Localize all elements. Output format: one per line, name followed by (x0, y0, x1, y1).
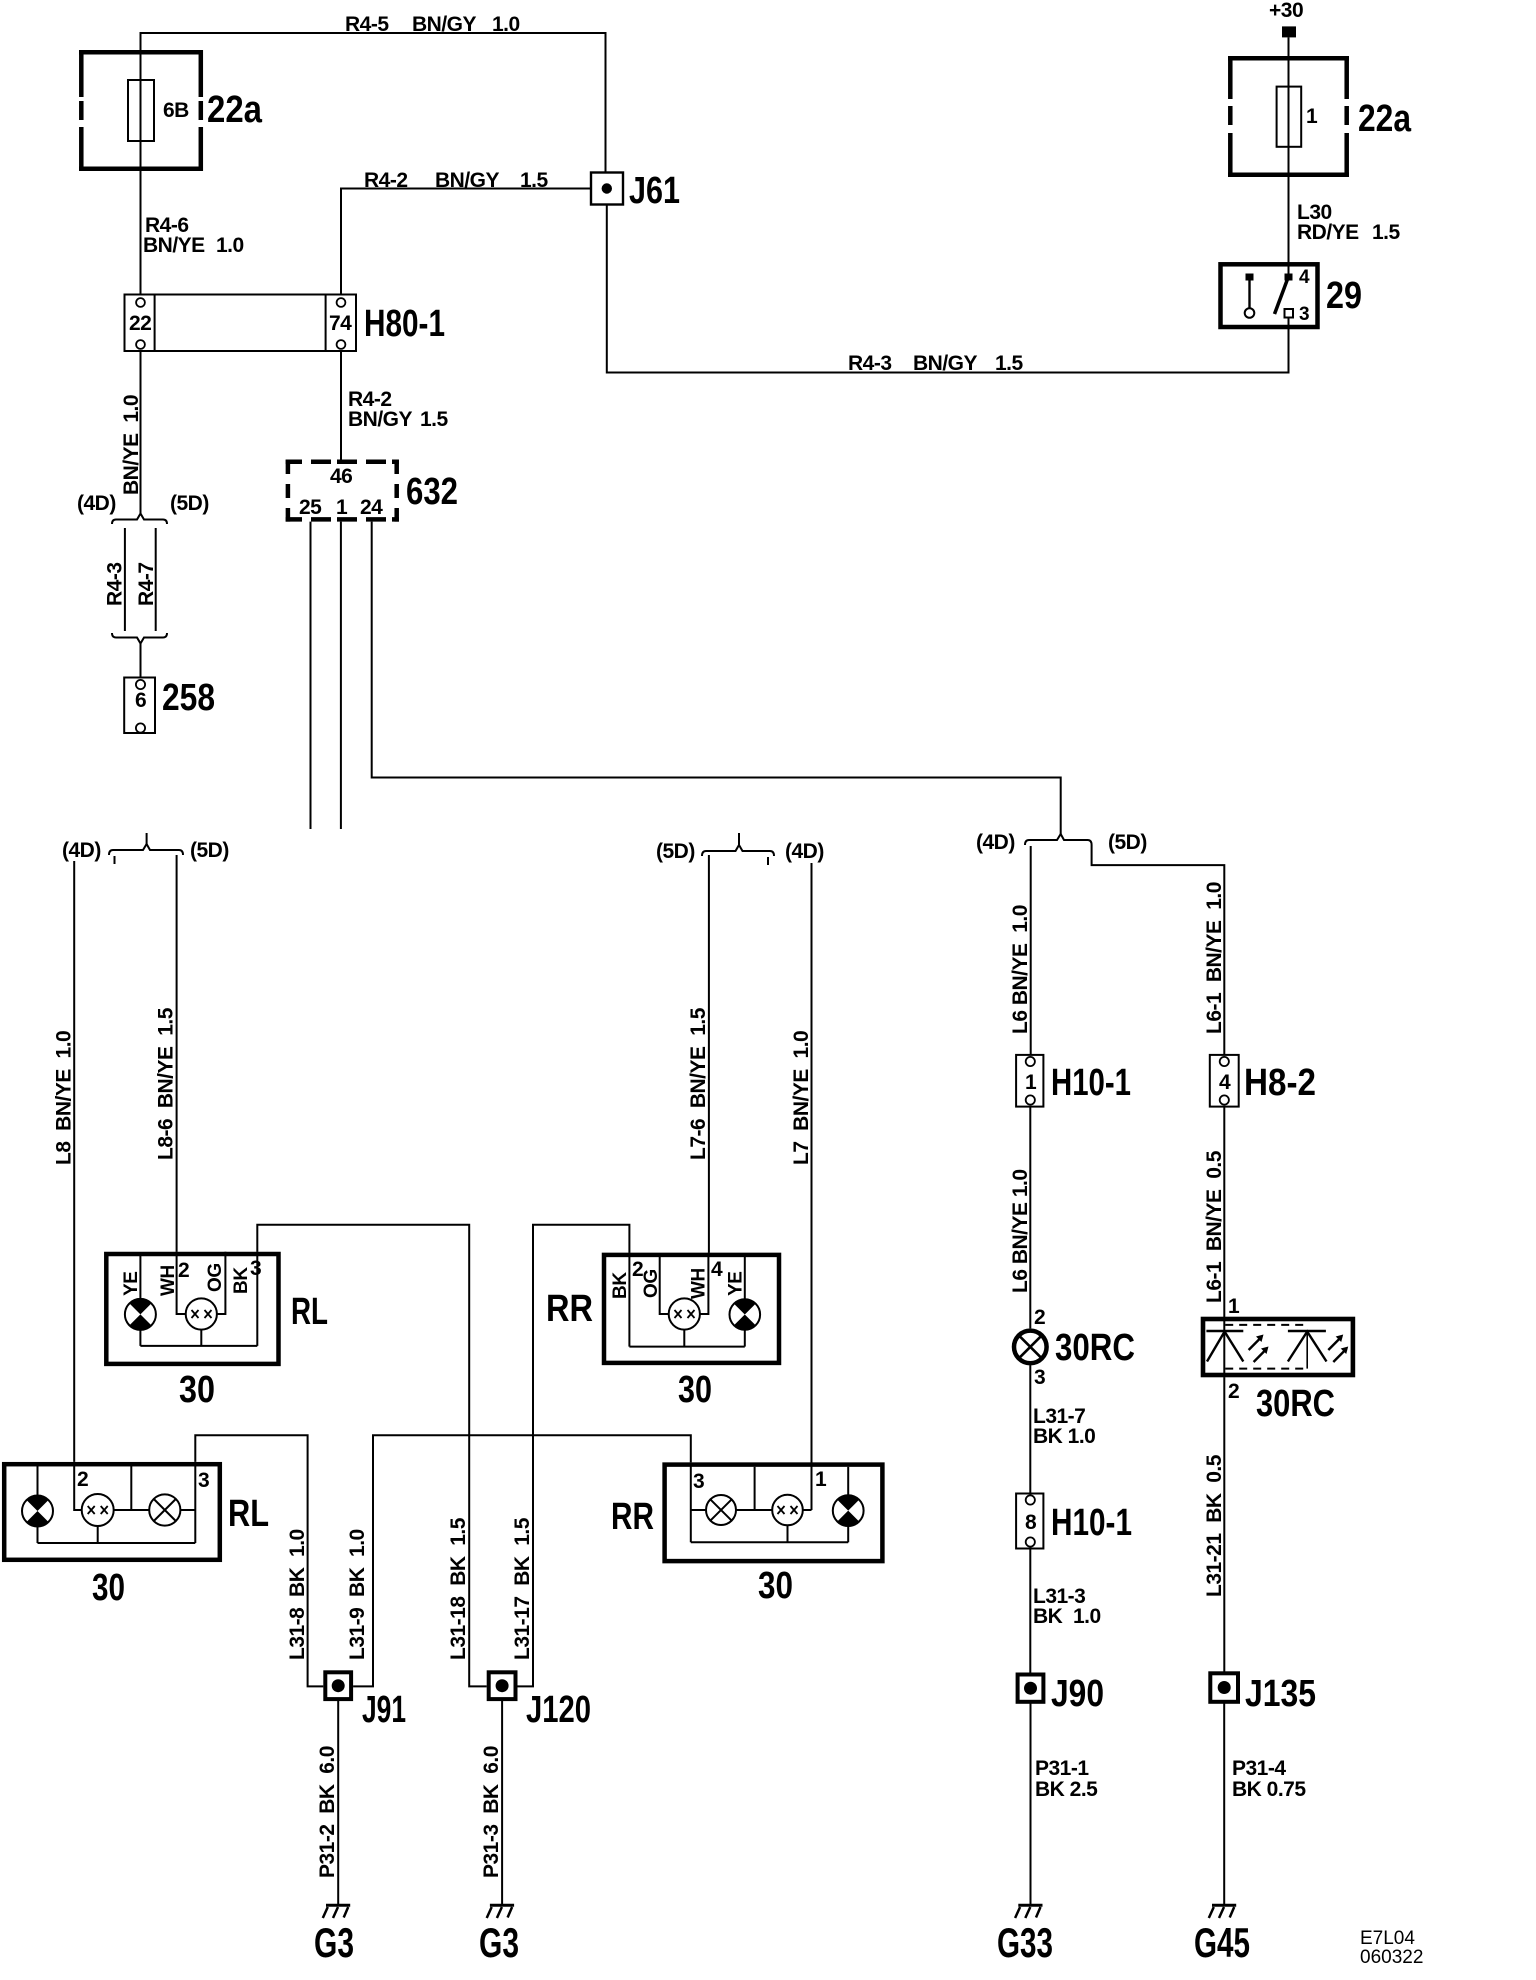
svg-text:1.5: 1.5 (520, 169, 549, 192)
svg-text:25: 25 (299, 496, 322, 519)
svg-text:30RC: 30RC (1055, 1327, 1135, 1369)
svg-text:30: 30 (758, 1565, 793, 1607)
dual filament bulb (upper RL) (186, 1298, 217, 1329)
dual filament bulb (lower RL) (82, 1494, 114, 1526)
inner lead OG (upper RR) (660, 1256, 669, 1314)
svg-text:YE: YE (726, 1271, 747, 1296)
svg-text:G3: G3 (479, 1919, 519, 1966)
svg-text:74: 74 (329, 312, 352, 335)
connector H80-1 (125, 295, 357, 352)
svg-text:BN/GY: BN/GY (412, 13, 477, 36)
svg-text:(5D): (5D) (1108, 831, 1147, 854)
svg-text:1: 1 (1025, 1071, 1037, 1094)
svg-text:BK 2.5: BK 2.5 (1035, 1778, 1098, 1801)
wire P31-1 BK 2.5 (J90 to G33) (1030, 1702, 1032, 1905)
svg-text:J61: J61 (629, 170, 680, 212)
bottom bus (lower RL) (38, 1542, 196, 1544)
indicator bulb (quadrant) upper RR (730, 1299, 761, 1330)
svg-text:L7-6 BN/YE 1.5: L7-6 BN/YE 1.5 (687, 1007, 710, 1160)
svg-text:G33: G33 (997, 1919, 1053, 1966)
wire to connector 258 (140, 644, 142, 678)
svg-text:46: 46 (330, 465, 352, 488)
svg-text:H80-1: H80-1 (364, 303, 445, 345)
svg-text:1: 1 (815, 1468, 827, 1491)
variant merge bracket (112, 633, 167, 644)
svg-text:R4-3: R4-3 (848, 352, 892, 375)
svg-text:24: 24 (360, 496, 383, 519)
wire YE to indicator (upper RR) (744, 1257, 746, 1299)
indicator bulb (quadrant) lower RR (847, 1467, 849, 1495)
ground G3 (right) (490, 1904, 514, 1907)
fuse box 22a (right) (1228, 56, 1349, 177)
wire R4-3 BN/GY 1.5 (J61 down, across to switch 29 pin 3) (607, 205, 1289, 373)
LED 1 (1206, 1330, 1243, 1332)
pin 3 lead (lower RR) (690, 1462, 692, 1542)
svg-text:+30: +30 (1269, 0, 1303, 22)
svg-text:J91: J91 (362, 1689, 406, 1731)
wire L6 BN/YE 1.0 (H10-1 to lamp 30RC) (1029, 1107, 1031, 1329)
svg-text:G3: G3 (314, 1919, 354, 1966)
svg-text:3: 3 (198, 1469, 209, 1492)
svg-text:BK 1.0: BK 1.0 (1033, 1425, 1095, 1448)
junction J120 (489, 1672, 516, 1699)
junction J90 (1018, 1675, 1044, 1702)
svg-text:29: 29 (1326, 275, 1362, 317)
pin 2 lead (lower RL) (74, 1462, 81, 1510)
svg-text:30: 30 (678, 1369, 712, 1411)
wire L6-1 BN/YE 0.5 (H8-2 to 30RC LED box) (1223, 1107, 1225, 1378)
svg-text:L7 BN/YE 1.0: L7 BN/YE 1.0 (790, 1031, 813, 1165)
svg-text:BN/GY: BN/GY (913, 352, 978, 375)
wire L7-6 BN/YE 1.5 (5D branch to upper RR pin 4) (708, 855, 710, 1253)
svg-text:4: 4 (1219, 1071, 1231, 1094)
svg-text:L6 BN/YE 1.0: L6 BN/YE 1.0 (1009, 905, 1032, 1034)
indicator bulb (quadrant) lower RL (37, 1466, 39, 1496)
svg-text:(5D): (5D) (170, 492, 209, 515)
svg-text:BK: BK (610, 1272, 631, 1299)
wire BN/YE 1.0 (H80-1 pin 22 down to split) (140, 351, 142, 514)
svg-text:P31-3 BK 6.0: P31-3 BK 6.0 (480, 1746, 503, 1878)
tail bulb (lower RR) (706, 1495, 736, 1525)
wire branch R4-3 (124, 528, 126, 631)
svg-text:(4D): (4D) (62, 839, 101, 862)
LED 1 emission arrows (1249, 1338, 1261, 1351)
svg-text:2: 2 (178, 1259, 189, 1282)
svg-text:H8-2: H8-2 (1244, 1062, 1316, 1104)
svg-text:BN/YE: BN/YE (143, 234, 205, 257)
svg-text:H10-1: H10-1 (1051, 1502, 1132, 1544)
pin 3 lead (lower RL) (194, 1462, 196, 1543)
svg-text:OG: OG (641, 1269, 662, 1298)
svg-text:P31-2 BK 6.0: P31-2 BK 6.0 (316, 1746, 339, 1878)
svg-text:(4D): (4D) (785, 840, 824, 863)
svg-text:4: 4 (1299, 267, 1310, 288)
svg-text:30RC: 30RC (1256, 1383, 1335, 1425)
switch 29 lever pin 4 to pin 3 (1285, 274, 1293, 281)
svg-text:RR: RR (546, 1288, 593, 1330)
svg-text:J135: J135 (1245, 1673, 1316, 1715)
svg-text:(4D): (4D) (77, 492, 116, 515)
svg-text:L6 BN/YE 1.0: L6 BN/YE 1.0 (1009, 1169, 1032, 1293)
svg-text:632: 632 (406, 471, 458, 513)
svg-text:30: 30 (92, 1567, 125, 1609)
pin 2 inner lead WH (upper RL) (177, 1252, 187, 1314)
wire L31-7 BK 1.0 (lamp to H10-1 pin 8) (1029, 1365, 1031, 1493)
svg-text:L31-17 BK 1.5: L31-17 BK 1.5 (511, 1517, 534, 1660)
svg-text:1.0: 1.0 (492, 13, 520, 36)
wire branch R4-7 (155, 528, 157, 631)
lamp unit RR (5D) box (604, 1255, 779, 1363)
LED 2 (1288, 1330, 1326, 1332)
fuse 6B (128, 80, 154, 141)
svg-text:22a: 22a (1358, 98, 1412, 140)
wire L31-18 BK 1.5 (upper RL pin 3 to J120) (257, 1225, 486, 1687)
svg-text:L31-9 BK 1.0: L31-9 BK 1.0 (346, 1529, 369, 1660)
svg-text:BN/GY: BN/GY (348, 408, 413, 431)
svg-text:L31-8 BK 1.0: L31-8 BK 1.0 (286, 1529, 309, 1660)
svg-text:1: 1 (336, 496, 348, 519)
inner tap (lower RR) (754, 1467, 756, 1510)
svg-text:WH: WH (689, 1268, 710, 1299)
wire +30 to fuse 22a (right) (1288, 37, 1290, 276)
wire YE to indicator (upper RL) (139, 1256, 141, 1299)
fuse 1 (1277, 87, 1302, 147)
control unit 632 (dashed) (286, 460, 399, 522)
rear lamp RR (4D) box (665, 1465, 883, 1562)
inner lead BK / pin 2 (upper RR) (628, 1253, 630, 1347)
svg-text:L6-1 BN/YE 1.0: L6-1 BN/YE 1.0 (1203, 882, 1226, 1034)
svg-text:L6-1 BN/YE 0.5: L6-1 BN/YE 0.5 (1203, 1150, 1226, 1303)
junction J91 (325, 1672, 351, 1699)
svg-text:P31-1: P31-1 (1035, 1757, 1089, 1780)
svg-text:BN/GY: BN/GY (435, 169, 500, 192)
svg-text:2: 2 (1034, 1306, 1045, 1329)
connector H10-1 pin 8 (1016, 1494, 1043, 1549)
wire L31-3 BK 1.0 (H10-1 to J90) (1029, 1549, 1031, 1675)
inner tap (lower RL) (130, 1466, 132, 1510)
ground G33 (1018, 1904, 1042, 1907)
svg-text:L8 BN/YE 1.0: L8 BN/YE 1.0 (53, 1031, 76, 1165)
svg-text:R4-2: R4-2 (364, 169, 408, 192)
bottom bus (upper RR) (629, 1346, 744, 1348)
wire P31-3 BK 6.0 (J120 to G3) (501, 1699, 503, 1905)
svg-text:WH: WH (158, 1265, 179, 1296)
wire 632 pin 1 down (340, 522, 342, 829)
wire L8-6 BN/YE 1.5 (5D branch to upper RL pin 2) (176, 855, 178, 1252)
svg-text:258: 258 (162, 677, 215, 719)
svg-text:1.0: 1.0 (216, 234, 244, 257)
ground G45 (1212, 1904, 1236, 1907)
svg-text:8: 8 (1025, 1511, 1037, 1534)
switch 29 (1221, 264, 1318, 327)
lamp unit RL (5D) box (106, 1254, 278, 1364)
svg-text:BK 0.75: BK 0.75 (1232, 1778, 1306, 1801)
svg-text:L31-18 BK 1.5: L31-18 BK 1.5 (447, 1517, 470, 1660)
svg-text:R4-3: R4-3 (104, 562, 127, 606)
LED 2 emission arrows (1328, 1338, 1340, 1351)
svg-text:RR: RR (611, 1496, 654, 1538)
svg-text:1.5: 1.5 (995, 352, 1024, 375)
svg-text:1.5: 1.5 (420, 408, 449, 431)
svg-text:22: 22 (129, 312, 151, 335)
svg-text:30: 30 (179, 1369, 215, 1411)
wire R4-5 BN/GY 1.0 (fuse 22a to J61) (141, 33, 606, 295)
svg-text:J120: J120 (526, 1689, 591, 1731)
connector 258 pin 6 (124, 678, 155, 734)
svg-text:6: 6 (135, 689, 146, 712)
svg-text:P31-4: P31-4 (1232, 1757, 1286, 1780)
svg-text:2: 2 (1228, 1380, 1239, 1403)
svg-text:1: 1 (1306, 105, 1318, 128)
fuse box 22a (left) (79, 50, 203, 171)
svg-text:2: 2 (77, 1468, 88, 1491)
switch 29 left contact (1246, 274, 1254, 281)
inner dashed enclosure (1225, 1325, 1308, 1369)
wire R4-2 BN/GY 1.5 (H80-1 pin 74 to J61) (341, 189, 591, 295)
svg-text:YE: YE (121, 1271, 142, 1296)
svg-text:3: 3 (1299, 304, 1309, 325)
svg-text:BK 1.0: BK 1.0 (1033, 1605, 1101, 1628)
svg-text:RL: RL (228, 1493, 269, 1535)
svg-text:1: 1 (1228, 1295, 1240, 1318)
svg-text:BN/YE 1.0: BN/YE 1.0 (120, 395, 143, 495)
wire L31-8 BK 1.0 (lower RL pin 3 to J91) (195, 1435, 323, 1686)
svg-text:H10-1: H10-1 (1051, 1062, 1131, 1104)
dual filament bulb (lower RR) (772, 1495, 803, 1526)
svg-text:OG: OG (205, 1263, 226, 1292)
tail bulb (lower RL) (149, 1494, 180, 1525)
dual filament bulb (upper RR) (669, 1298, 700, 1329)
pin circles H80-1 (136, 298, 145, 307)
svg-text:22a: 22a (207, 89, 263, 131)
inner lead WH / pin 4 (upper RR) (700, 1253, 709, 1314)
wire L8 BN/YE 1.0 (4D branch to rear lamp RL pin 2) (73, 861, 75, 1462)
svg-text:L8-6 BN/YE 1.5: L8-6 BN/YE 1.5 (155, 1007, 178, 1160)
wire L6-1 BN/YE 1.0 (5D branch to H8-2 pin 4) (1092, 845, 1225, 1055)
svg-text:G45: G45 (1194, 1919, 1250, 1966)
junction J61 (591, 173, 623, 205)
svg-text:E7L04: E7L04 (1360, 1928, 1415, 1949)
svg-text:BK: BK (231, 1267, 252, 1294)
bottom bus (lower RR) (691, 1541, 848, 1543)
svg-text:L31-21 BK 0.5: L31-21 BK 0.5 (1203, 1454, 1226, 1597)
pin 1 lead (lower RR) (803, 1509, 812, 1511)
bottom bus (upper RL) (140, 1345, 257, 1347)
connector H10-1 pin 1 (1016, 1055, 1043, 1107)
svg-text:RL: RL (291, 1291, 328, 1333)
svg-text:3: 3 (693, 1470, 704, 1493)
wire L6 BN/YE 1.0 (4D branch to H10-1 pin 1) (1030, 846, 1032, 1055)
svg-text:RD/YE: RD/YE (1297, 221, 1359, 244)
svg-text:(5D): (5D) (190, 839, 229, 862)
wire P31-4 BK 0.75 (J135 to G45) (1223, 1702, 1225, 1905)
svg-text:J90: J90 (1051, 1673, 1104, 1715)
wire L7 BN/YE 1.0 (4D branch to rear lamp RR pin 1) (811, 863, 813, 1510)
svg-text:4: 4 (711, 1258, 723, 1281)
wire L31-21 BK 0.5 (30RC to J135) (1223, 1377, 1225, 1673)
svg-text:(4D): (4D) (976, 831, 1015, 854)
inner lead BK / pin 3 (upper RL) (256, 1252, 258, 1346)
svg-text:R4-7: R4-7 (135, 562, 158, 606)
svg-text:1.5: 1.5 (1372, 221, 1401, 244)
rear lamp RL (4D) box (4, 1464, 220, 1560)
wire P31-2 BK 6.0 (J91 to G3) (337, 1699, 339, 1905)
svg-text:(5D): (5D) (656, 840, 695, 863)
svg-text:3: 3 (250, 1257, 261, 1280)
wire 632 pin 24 down and across to right split (372, 522, 1061, 834)
svg-text:3: 3 (1034, 1366, 1045, 1389)
svg-text:R4-5: R4-5 (345, 13, 389, 36)
junction J135 (1210, 1673, 1238, 1702)
connector H8-2 pin 4 (1210, 1055, 1239, 1107)
wire 632 pin 25 down (310, 522, 312, 829)
wire L31-9 BK 1.0 (lower RR pin 3 to J91) (353, 1435, 691, 1686)
svg-text:6B: 6B (163, 99, 189, 122)
indicator bulb (quadrant) upper RL (125, 1299, 156, 1330)
ground G3 (left) (326, 1904, 350, 1907)
inner lead OG (upper RL) (217, 1252, 226, 1314)
svg-text:060322: 060322 (1360, 1947, 1423, 1968)
wire L31-17 BK 1.5 (upper RR pin 2 to J120) (518, 1225, 630, 1687)
wire R4-2 BN/GY 1.5 (H80-1 pin 74 down to 632 pin 46) (340, 351, 342, 460)
